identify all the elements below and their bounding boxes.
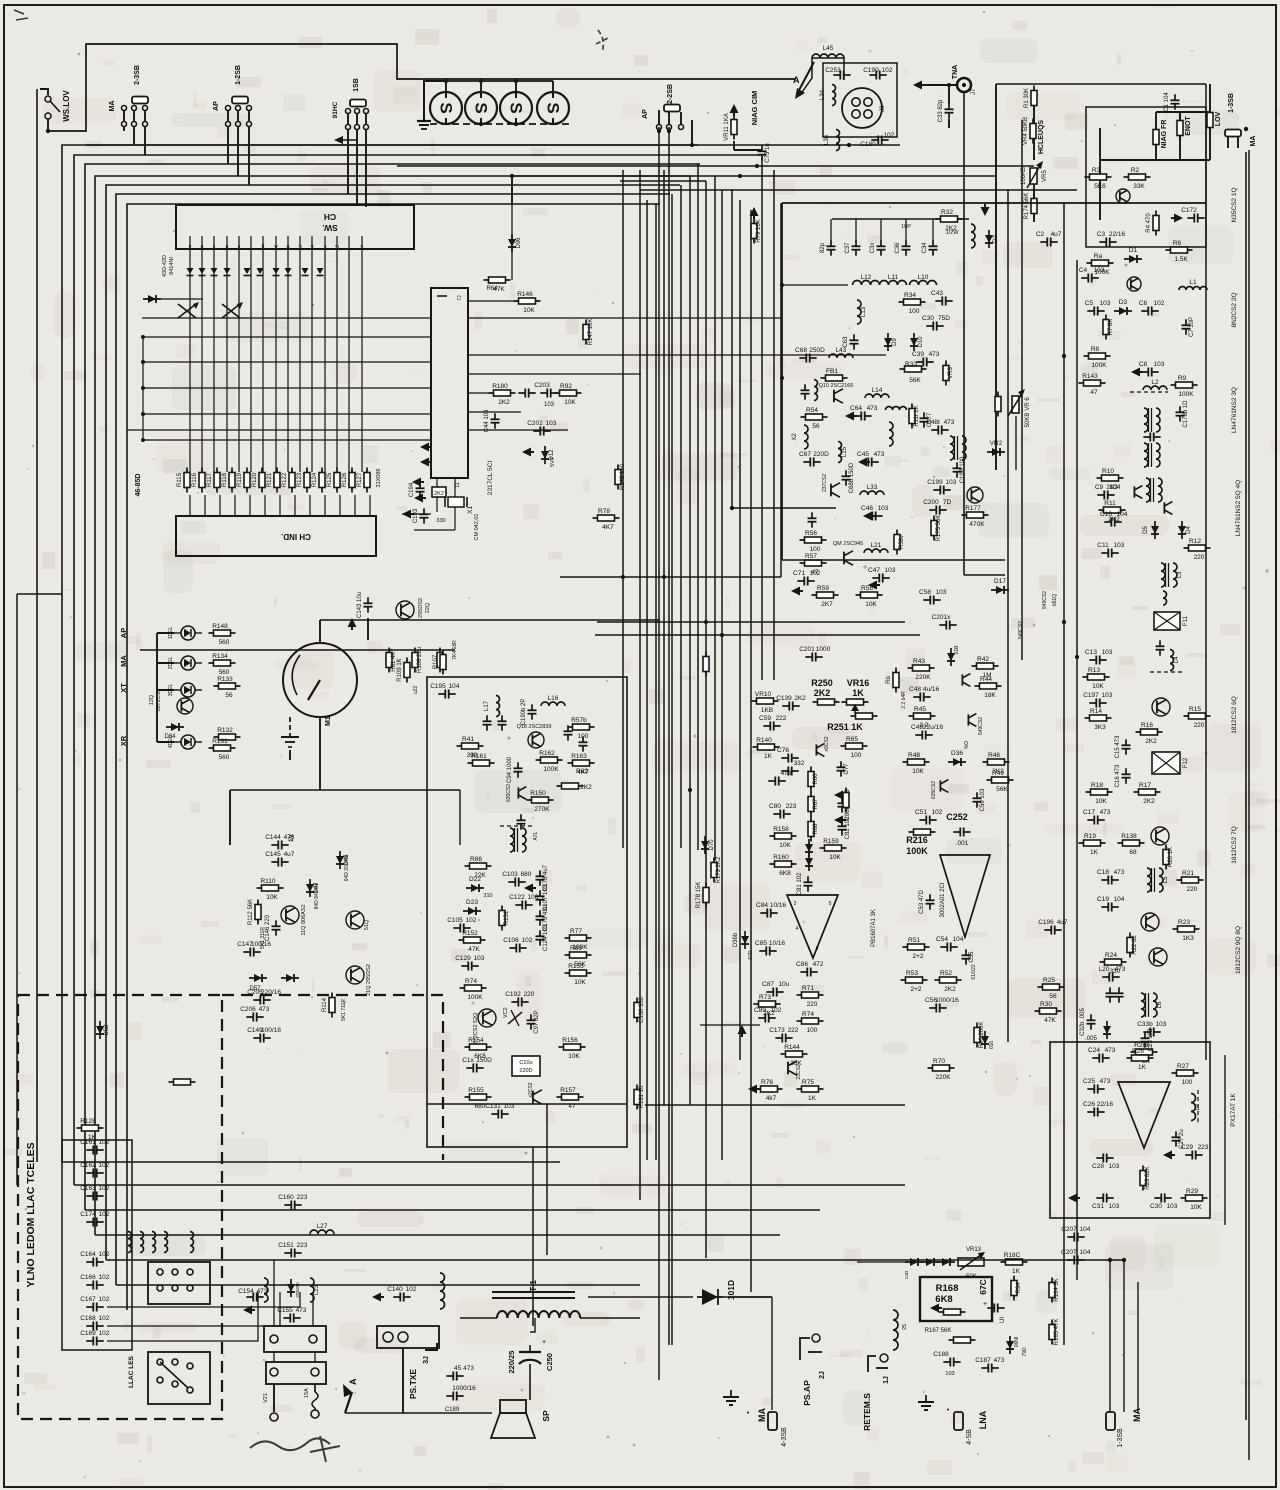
box: [1086, 107, 1206, 247]
capacitor C44: [484, 409, 500, 432]
svg-text:UI: UI: [1000, 1317, 1006, 1323]
svg-text:D52: D52: [104, 1024, 110, 1036]
wire pin: [226, 236, 228, 249]
capacitor C21: [1106, 987, 1115, 1002]
resistor R24: [1100, 952, 1127, 975]
capacitor C187: [975, 1357, 1005, 1373]
svg-text:C10u: C10u: [519, 1060, 532, 1066]
svg-text:1K: 1K: [1012, 1268, 1021, 1275]
svg-text:223: 223: [786, 803, 797, 810]
wire dashed: [1130, 391, 1168, 393]
wire bus: [127, 204, 660, 1310]
wire: [480, 81, 482, 92]
svg-text:250D: 250D: [809, 347, 825, 354]
coil L7: [1191, 1094, 1201, 1121]
svg-text:237CS2: 237CS2: [822, 474, 828, 492]
svg-text:R66: R66: [813, 773, 819, 785]
resistor R152: [459, 930, 486, 953]
label D58-64: [135, 474, 142, 497]
terminal: [309, 1335, 317, 1343]
svg-text:R152: R152: [462, 930, 478, 937]
junction: [688, 788, 692, 792]
label Q18: [517, 724, 552, 730]
transistor Q11: [281, 906, 299, 924]
svg-text:470K: 470K: [969, 521, 985, 528]
coil L22: [264, 1278, 268, 1302]
wire bus: [1076, 260, 1078, 1280]
label pin: [310, 243, 314, 249]
wire: [454, 478, 456, 530]
trimmer VC2: [503, 1007, 522, 1026]
capacitor C77: [837, 761, 851, 776]
label VOL.SW: [62, 90, 71, 122]
resistor R26: [1127, 1048, 1154, 1071]
label R64: [486, 286, 498, 292]
label 10P: [901, 224, 911, 230]
svg-text:TNA: TNA: [952, 65, 959, 79]
svg-text:R17: R17: [1139, 782, 1151, 789]
svg-text:4u7: 4u7: [1057, 919, 1068, 926]
resistor R186: [1001, 1252, 1028, 1275]
junction: [510, 174, 514, 178]
wire: [996, 83, 1206, 85]
svg-text:R147 10K: R147 10K: [588, 319, 594, 346]
connector BS3-1: [1225, 130, 1241, 137]
capacitor C81: [797, 872, 813, 895]
wire dashed: [1197, 1090, 1199, 1124]
diode D70: [701, 836, 715, 854]
svg-text:473: 473: [944, 419, 955, 426]
label pin: [188, 243, 191, 249]
svg-text:104: 104: [1080, 1249, 1091, 1256]
svg-text:1-2SB: 1-2SB: [235, 65, 242, 85]
capacitor C45: [857, 451, 885, 467]
wire pin: [213, 236, 215, 249]
svg-text:C190: C190: [863, 67, 879, 74]
transistor Q10: [834, 389, 843, 403]
resistor R10: [1097, 468, 1124, 491]
wire: [361, 249, 363, 472]
svg-text:1J: 1J: [883, 1376, 890, 1384]
junction: [704, 620, 708, 624]
resistor R108: [412, 647, 423, 673]
transistor Q23: [788, 1061, 797, 1075]
svg-text:R7 8K: R7 8K: [1108, 319, 1114, 336]
coil L1: [1179, 279, 1207, 290]
resistor R3: [1085, 167, 1112, 190]
potentiometer VR11: [724, 113, 737, 141]
label C191: [434, 489, 447, 495]
svg-text:C81 102: C81 102: [797, 872, 803, 895]
wire: [145, 298, 203, 300]
svg-text:3J: 3J: [423, 1356, 430, 1364]
svg-text:R11t 1K: R11t 1K: [914, 405, 920, 426]
ground: [863, 512, 875, 521]
svg-text:5: 5: [829, 901, 832, 907]
svg-text:L12: L12: [861, 274, 872, 281]
capacitor C3x: [870, 240, 886, 255]
resistor R154: [465, 1037, 492, 1060]
wire: [133, 110, 135, 122]
resistor R74: [797, 1011, 824, 1034]
resistor: [437, 648, 443, 673]
svg-text:R127: R127: [357, 472, 363, 487]
label BS3-4: [781, 1427, 788, 1447]
resistor R159: [820, 838, 847, 861]
resistor R174: [1024, 193, 1037, 220]
wire dashed: [1150, 671, 1185, 673]
label BS1: [353, 78, 360, 92]
ground: [791, 587, 803, 596]
wire: [237, 110, 239, 122]
diode D47: [306, 879, 320, 897]
label: [413, 686, 419, 695]
scribble: [14, 10, 28, 20]
svg-text:R2: R2: [1131, 167, 1140, 174]
wire: [142, 413, 431, 415]
svg-text:R138: R138: [1121, 833, 1137, 840]
svg-text:R154: R154: [468, 1037, 484, 1044]
capacitor C164: [80, 1251, 110, 1267]
wire: [580, 1317, 640, 1319]
wire pin: [238, 236, 240, 249]
svg-text:VC2: VC2: [503, 1007, 509, 1018]
resistor R59: [812, 585, 839, 608]
svg-text:102: 102: [99, 1162, 110, 1169]
terminal: [355, 125, 360, 130]
svg-text:C53 47D: C53 47D: [919, 889, 925, 913]
wire pin: [189, 495, 191, 516]
wire: [620, 180, 706, 182]
label K1: [1230, 1093, 1237, 1127]
connector BS1: [350, 100, 366, 107]
svg-text:103: 103: [1167, 1203, 1178, 1210]
svg-text:R24: R24: [1105, 952, 1117, 959]
svg-text:J8: J8: [880, 105, 886, 112]
svg-text:100: 100: [1182, 1079, 1193, 1086]
transformer T1: [492, 1280, 575, 1298]
wire bus: [85, 164, 700, 1210]
label PA: [213, 101, 220, 111]
transistor Q15: [346, 911, 364, 929]
label TONE: [1185, 116, 1192, 136]
filter F12: [1152, 752, 1189, 774]
diode D42: [921, 1258, 939, 1266]
resistor R79: [751, 219, 762, 244]
wire bus: [655, 204, 657, 1160]
svg-text:VR16: VR16: [847, 678, 870, 688]
svg-text:100K: 100K: [467, 994, 483, 1001]
wire: [734, 149, 762, 151]
coil: [1163, 591, 1167, 605]
wire: [157, 662, 174, 664]
ground: [750, 207, 759, 219]
wire: [552, 81, 554, 92]
svg-text:C1x: C1x: [462, 1057, 474, 1064]
coil L19: [886, 407, 907, 411]
svg-text:C202: C202: [527, 420, 543, 427]
svg-text:C9: C9: [1095, 484, 1104, 491]
transformer IFT1: [1144, 408, 1160, 432]
wire: [40, 89, 48, 95]
lamp PL2: [465, 92, 497, 124]
svg-text:10K: 10K: [779, 842, 791, 849]
resistor R156: [559, 1037, 586, 1060]
svg-text:56: 56: [812, 423, 820, 430]
svg-text:RETEM.S: RETEM.S: [862, 1393, 872, 1431]
svg-text:1V: 1V: [288, 833, 295, 842]
svg-text:10K: 10K: [1095, 798, 1107, 805]
svg-text:R26: R26: [1132, 1048, 1144, 1055]
resistor R104: [1049, 1278, 1060, 1303]
wire: [917, 84, 957, 86]
wire: [248, 126, 250, 185]
junction: [962, 83, 966, 87]
svg-text:R120: R120: [252, 472, 258, 487]
resistor R2: [1124, 167, 1151, 190]
resistor R216: [909, 829, 936, 835]
svg-text:VR5: VR5: [1042, 170, 1048, 182]
svg-text:2K2: 2K2: [434, 491, 444, 497]
wire: [427, 1103, 627, 1105]
svg-text:C25: C25: [1083, 1078, 1095, 1085]
svg-text:L20: L20: [1099, 966, 1110, 973]
transformer IFT2: [1144, 443, 1160, 467]
wire: [16, 594, 18, 1185]
wire: [1209, 84, 1211, 112]
svg-text:1812CS2 6Q: 1812CS2 6Q: [1231, 696, 1238, 734]
resistor R126: [342, 468, 355, 493]
svg-text:R74: R74: [802, 1011, 814, 1018]
svg-text:MA: MA: [757, 1408, 767, 1422]
svg-text:R175 56K: R175 56K: [936, 515, 942, 542]
label Q11: [301, 904, 307, 935]
svg-text:L11: L11: [888, 274, 899, 281]
diode VR2: [987, 440, 1005, 456]
wire pin: [361, 236, 363, 249]
resistor R118: [222, 468, 235, 493]
arrow: [851, 704, 859, 714]
capacitor C15: [1115, 735, 1131, 758]
diode: [805, 839, 813, 857]
label BS3-3: [1117, 1428, 1124, 1448]
svg-text:L5: L5: [1163, 876, 1169, 883]
junction: [1062, 620, 1066, 624]
ground: [243, 1306, 255, 1315]
svg-text:R146: R146: [517, 291, 533, 298]
label S.METER: [862, 1393, 872, 1431]
label: [852, 688, 864, 698]
svg-text:220: 220: [524, 991, 535, 998]
svg-text:R131: R131: [212, 738, 228, 745]
wire: [156, 633, 158, 742]
svg-text:R25: R25: [1043, 977, 1055, 984]
terminal: [157, 1377, 163, 1383]
potentiometer RF GAIN: [1153, 125, 1159, 150]
wire: [142, 387, 431, 389]
svg-text:R27: R27: [1177, 1063, 1189, 1070]
capacitor L20: [1099, 966, 1126, 982]
wire pin: [189, 236, 191, 249]
svg-text:79D: 79D: [1022, 1347, 1028, 1357]
label Q1: [1231, 187, 1238, 222]
capacitor C177: [920, 412, 934, 428]
capacitor C76b: [777, 747, 799, 763]
diode D52: [96, 1021, 110, 1039]
svg-text:C30: C30: [1150, 1203, 1162, 1210]
svg-text:C103: C103: [502, 871, 518, 878]
box 2K2: [432, 487, 446, 497]
resistor R162: [536, 750, 563, 773]
transistor Q6: [1152, 698, 1170, 716]
svg-text:X2: X2: [792, 433, 798, 441]
svg-text:C18: C18: [1097, 869, 1109, 876]
svg-text:R126: R126: [342, 472, 348, 487]
svg-text:56K: 56K: [996, 786, 1008, 793]
capacitor C47: [868, 567, 896, 583]
capacitor C129: [455, 955, 485, 971]
svg-text:102: 102: [99, 1139, 110, 1146]
wire bus: [714, 176, 716, 860]
svg-text:R133: R133: [217, 676, 233, 683]
wire bus: [671, 194, 673, 1345]
svg-text:270K: 270K: [534, 806, 550, 813]
svg-text:10/16: 10/16: [770, 902, 787, 909]
wire: [782, 202, 1206, 204]
label R216: [906, 835, 928, 845]
svg-text:C77: C77: [844, 763, 850, 775]
svg-text:+: +: [983, 1301, 987, 1308]
capacitor C9: [1095, 484, 1121, 500]
svg-text:C130 330: C130 330: [639, 996, 645, 1023]
svg-text:D23: D23: [466, 899, 478, 906]
wire: [1155, 145, 1157, 160]
svg-text:VR2: VR2: [990, 440, 1003, 447]
svg-text:12Q: 12Q: [149, 694, 155, 705]
label IC2: [940, 882, 946, 917]
capacitor: [483, 715, 492, 730]
svg-text:C86: C86: [796, 961, 808, 968]
potentiometer R251: [851, 713, 878, 719]
label C76: [978, 1279, 988, 1295]
svg-text:C58: C58: [919, 589, 931, 596]
svg-text:L6: L6: [1157, 1001, 1163, 1008]
wire: [336, 249, 338, 472]
svg-text:MA: MA: [119, 655, 128, 667]
wire: [771, 1297, 773, 1410]
svg-text:R21: R21: [1182, 870, 1194, 877]
transformer L5: [1147, 868, 1169, 892]
svg-text:R82: R82: [576, 768, 588, 775]
svg-text:C68b 150D: C68b 150D: [849, 462, 855, 493]
junction: [444, 79, 448, 83]
wire pin: [287, 236, 289, 249]
lamp PL3: [500, 92, 532, 124]
svg-text:10K: 10K: [568, 1053, 580, 1060]
wire: [1109, 1260, 1111, 1412]
wire: [468, 392, 492, 394]
wire: [248, 110, 250, 122]
resistor R180: [489, 383, 516, 406]
capacitor C250: [507, 1339, 554, 1400]
svg-text:4u7: 4u7: [284, 851, 295, 858]
label BS-4: [966, 1429, 973, 1445]
capacitor C29: [1181, 1144, 1209, 1160]
svg-text:C3: C3: [1097, 231, 1106, 238]
ground: [348, 618, 357, 630]
svg-text:A: A: [793, 75, 800, 85]
resistor R57: [800, 553, 827, 576]
junction: [141, 438, 145, 442]
resistor: [886, 668, 899, 693]
label: [1052, 594, 1058, 606]
svg-text:220K: 220K: [935, 1074, 951, 1081]
svg-text:C10: C10: [1100, 511, 1112, 518]
svg-text:C87: C87: [762, 981, 774, 988]
wire: [107, 1292, 258, 1341]
svg-text:100/16: 100/16: [251, 941, 271, 948]
svg-text:L17: L17: [484, 700, 490, 711]
svg-text:1K: 1K: [852, 688, 864, 698]
svg-text:223: 223: [297, 1194, 308, 1201]
wire bus: [761, 155, 763, 680]
wire: [62, 1161, 560, 1163]
terminal: [143, 122, 148, 127]
junction: [1062, 354, 1066, 358]
label K3: [871, 909, 877, 947]
diode D36: [948, 750, 966, 766]
svg-text:C84: C84: [756, 902, 768, 909]
svg-text:5K1 711R: 5K1 711R: [341, 999, 347, 1021]
svg-text:R58: R58: [861, 585, 873, 592]
label: [901, 691, 907, 709]
resistor R181: [634, 1085, 645, 1110]
resistor R21: [1177, 870, 1204, 893]
resistor R82: [557, 768, 593, 791]
svg-text:103: 103: [504, 1103, 515, 1110]
svg-text:31X086: 31X086: [376, 469, 382, 488]
transformer L7A: [510, 828, 526, 852]
svg-text:10K: 10K: [865, 601, 877, 608]
svg-text:.005: .005: [1085, 1036, 1097, 1042]
wire: [800, 58, 844, 95]
capacitor C162: [80, 1162, 110, 1178]
svg-text:L4: L4: [1174, 656, 1180, 663]
wire: [273, 1260, 275, 1326]
label: [945, 1371, 954, 1377]
svg-text:L43: L43: [836, 347, 847, 354]
antenna jack J7: [957, 78, 977, 95]
svg-text:PS.AP: PS.AP: [802, 1380, 812, 1406]
junction: [46, 129, 50, 133]
resistor R23: [1173, 919, 1200, 942]
transistor Q17: [940, 780, 948, 793]
transistor Q24: [533, 1090, 542, 1104]
wire: [47, 119, 49, 131]
label: [437, 487, 443, 493]
svg-text:L2: L2: [1151, 379, 1159, 386]
svg-text:102: 102: [99, 1330, 110, 1337]
capacitor C36: [895, 240, 911, 255]
svg-text:LOV: LOV: [1215, 111, 1222, 126]
resistor R86: [465, 856, 492, 879]
wire: [238, 249, 240, 472]
ground: [1171, 214, 1183, 223]
resistor R11: [1099, 500, 1126, 523]
svg-text:2K2: 2K2: [1145, 738, 1157, 745]
wire: [468, 300, 521, 302]
resistor R49: [987, 770, 1014, 793]
